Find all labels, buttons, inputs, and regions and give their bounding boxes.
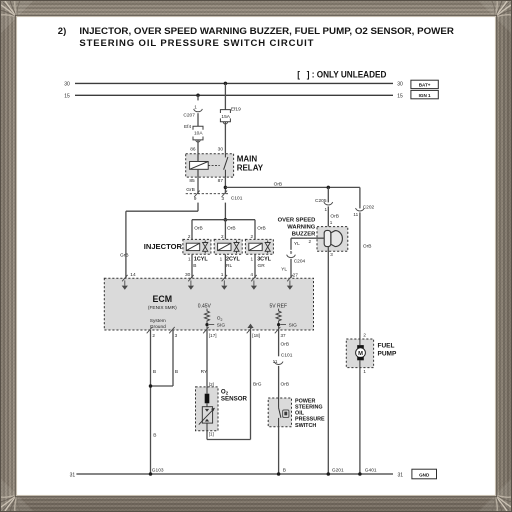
svg-text:OrB: OrB [194, 225, 203, 231]
fuel pump motor [357, 345, 364, 348]
svg-text:GR: GR [258, 263, 266, 269]
wire ign feed upper [197, 95, 199, 100]
wire injector 3 to ECM [254, 254, 256, 278]
svg-text:STEERING OIL PRESSURE SWITCH C: STEERING OIL PRESSURE SWITCH CIRCUIT [79, 38, 313, 49]
wire buzzer to G201 [327, 247, 329, 474]
node G201 [327, 472, 331, 476]
wire YL to ECM 27 [290, 259, 292, 278]
main relay box [186, 154, 234, 177]
node G103 [149, 472, 153, 476]
over speed warning buzzer box [317, 227, 348, 252]
svg-text:OrB: OrB [281, 342, 290, 348]
wire fuel pump to G401 [359, 368, 361, 474]
svg-text:[18]: [18] [252, 333, 260, 338]
relay actuation dashed link [208, 164, 220, 166]
svg-text:[1]: [1] [209, 432, 214, 437]
svg-text:Ef19: Ef19 [231, 107, 241, 113]
connector line C101 [186, 193, 230, 195]
svg-text:C207: C207 [183, 112, 195, 118]
node O2 sig [205, 323, 208, 326]
svg-text:(FENIX 5MR): (FENIX 5MR) [148, 305, 177, 311]
wire OrB C205 to buzzer [327, 206, 329, 230]
svg-text:WARNING: WARNING [287, 224, 316, 230]
relay coil wires [197, 154, 199, 162]
connector C101 pin 11 [274, 362, 283, 365]
wire BrG return loop [206, 431, 208, 440]
svg-text:2: 2 [308, 239, 311, 244]
svg-text:OrB: OrB [281, 382, 290, 388]
bus 15 (ignition feed) [75, 94, 393, 96]
svg-text:OrB: OrB [227, 225, 236, 231]
svg-text:B: B [153, 432, 156, 438]
svg-text:ECM: ECM [153, 294, 173, 304]
injector drop wires [191, 220, 193, 240]
svg-text:SIG: SIG [289, 322, 298, 328]
svg-text:[17]: [17] [209, 333, 217, 338]
svg-text:15: 15 [64, 94, 70, 100]
svg-text:31: 31 [70, 472, 76, 478]
svg-text:B: B [153, 369, 156, 375]
wire OrB to injector bus [224, 203, 226, 220]
svg-text:PRESSURE: PRESSURE [295, 417, 325, 423]
svg-text:1: 1 [250, 257, 253, 262]
wire injector 1 to ECM [191, 254, 193, 278]
svg-text:15: 15 [397, 93, 403, 99]
wire OrB C202 to fuel pump [359, 212, 361, 339]
svg-text:C101: C101 [281, 352, 293, 358]
relay coil [190, 162, 209, 170]
O2 sensor element [205, 394, 210, 404]
svg-text:GrB: GrB [186, 187, 195, 193]
BAT terminal box [411, 80, 438, 88]
injector 3CYL [245, 239, 273, 254]
svg-text:RL: RL [226, 263, 232, 269]
svg-text:1: 1 [221, 272, 224, 278]
svg-text:OrB: OrB [330, 214, 339, 220]
fuel pump wires inside [359, 339, 361, 345]
svg-text:2CYL: 2CYL [226, 257, 240, 263]
svg-text:C205: C205 [315, 198, 327, 204]
O2 sensor box [196, 387, 219, 431]
svg-text:15A: 15A [221, 114, 230, 120]
bus 30 (battery feed) [75, 82, 393, 84]
svg-text:YL: YL [281, 267, 287, 273]
svg-text:IGN 1: IGN 1 [419, 93, 431, 98]
wire fuse Ef19 to relay pin 30 [224, 122, 226, 154]
svg-text:3: 3 [175, 333, 178, 338]
svg-text:2: 2 [251, 234, 254, 239]
svg-text:YL: YL [294, 241, 300, 247]
wire OrB relay 87 down [224, 177, 226, 194]
ECM boundary ticks bottom [147, 327, 153, 333]
svg-text:1: 1 [363, 369, 366, 374]
svg-text:RY: RY [201, 369, 208, 375]
injector 2CYL [214, 239, 242, 254]
svg-text:M: M [358, 351, 363, 357]
wire RY ECM 17 to O2 sensor [206, 330, 208, 387]
node G401 [358, 472, 362, 476]
svg-text:3CYL: 3CYL [257, 257, 271, 263]
svg-text:OrB: OrB [363, 244, 372, 250]
svg-text:2: 2 [221, 234, 224, 239]
node OrB to C205 [327, 186, 331, 190]
connector C207 [194, 109, 203, 112]
node relay 87 / OrB feed [224, 186, 228, 190]
svg-text:1CYL: 1CYL [194, 257, 208, 263]
svg-text:C101: C101 [231, 195, 243, 201]
svg-text:GrB: GrB [120, 252, 129, 258]
svg-text:INJECTOR, OVER SPEED WARNING B: INJECTOR, OVER SPEED WARNING BUZZER, FUE… [79, 26, 454, 37]
injector 1CYL [183, 239, 211, 254]
node ground join [149, 384, 153, 388]
svg-text:SWITCH: SWITCH [295, 423, 316, 429]
connector C204 [287, 255, 296, 258]
svg-text:STEERING: STEERING [295, 405, 323, 411]
svg-text:85: 85 [189, 178, 195, 184]
svg-text:OIL: OIL [295, 411, 305, 417]
svg-text:4: 4 [250, 272, 253, 278]
svg-text:1: 1 [194, 105, 197, 110]
svg-text:14: 14 [130, 272, 136, 278]
svg-text:BrG: BrG [253, 382, 262, 388]
svg-text:SIG: SIG [217, 322, 226, 328]
relay contact [224, 154, 226, 158]
svg-text:11: 11 [353, 212, 358, 217]
wire GrB bend to ECM 14 [197, 203, 199, 212]
svg-text:1: 1 [324, 207, 327, 212]
svg-text:G103: G103 [152, 467, 164, 473]
svg-text:5V REF: 5V REF [270, 303, 288, 309]
svg-text:0.45V: 0.45V [198, 303, 212, 309]
svg-text:MAIN: MAIN [237, 155, 258, 164]
node on bus 15 [196, 94, 200, 98]
svg-text:OVER SPEED: OVER SPEED [278, 217, 316, 223]
svg-text:BAT+: BAT+ [419, 83, 431, 88]
svg-text:9: 9 [290, 250, 293, 255]
svg-text:Ground: Ground [150, 324, 166, 330]
svg-text:OrB: OrB [274, 181, 283, 187]
svg-text:G401: G401 [365, 468, 377, 474]
wire B from ECM 2 [150, 330, 152, 474]
power steering oil pressure switch box [268, 398, 291, 427]
fuel pump box [346, 339, 373, 368]
node on bus 30 [224, 82, 228, 86]
svg-text:INJECTOR: INJECTOR [144, 242, 183, 251]
switch contact [278, 398, 280, 408]
svg-text:O2: O2 [221, 389, 229, 396]
wire fuse Ef4 to relay pin 86 [197, 140, 199, 154]
bus 31 (ground) [76, 473, 393, 475]
svg-text:[ ] : ONLY UNLEADED: [ ] : ONLY UNLEADED [297, 69, 387, 79]
svg-text:BUZZER: BUZZER [292, 231, 316, 237]
fuse Ef4 10A [193, 126, 203, 129]
svg-text:87: 87 [218, 178, 224, 184]
wire GrB relay 85 down [197, 177, 199, 194]
IGN 1 terminal box [411, 90, 438, 98]
svg-text:B: B [283, 467, 286, 473]
wire C207 to fuse Ef4 [197, 113, 199, 126]
wire OrB turn down to C202 [359, 187, 361, 208]
svg-text:86: 86 [190, 147, 196, 153]
wire bat feed [224, 83, 226, 109]
wire YL buzzer pin2 [291, 237, 324, 239]
fuse Ef19 15A [220, 110, 230, 113]
svg-text:1: 1 [330, 220, 333, 225]
svg-text:37: 37 [281, 333, 287, 338]
ECM boundary ticks top [122, 275, 128, 281]
svg-text:27: 27 [293, 273, 299, 279]
wire injector 2 to ECM [224, 254, 226, 278]
svg-text:2: 2 [188, 234, 191, 239]
svg-text:B: B [175, 369, 178, 375]
svg-text:B: B [193, 263, 196, 269]
svg-text:30: 30 [218, 147, 224, 153]
ECM input arrows top [124, 280, 126, 285]
svg-text:GND: GND [419, 472, 430, 477]
svg-text:30: 30 [64, 82, 70, 88]
wire OrB ECM 37 down [278, 330, 280, 356]
GND terminal box [412, 469, 437, 479]
svg-text:30: 30 [185, 272, 191, 278]
svg-text:C202: C202 [363, 205, 375, 211]
svg-text:G201: G201 [332, 468, 344, 474]
wire OrB to switch [278, 366, 280, 398]
svg-text:30: 30 [397, 82, 403, 88]
buzzer symbol [331, 231, 343, 247]
wire B from ECM 3 [172, 330, 174, 386]
svg-text:2): 2) [58, 26, 66, 37]
svg-text:1: 1 [188, 257, 191, 262]
node ground B [277, 472, 281, 476]
svg-text:3: 3 [330, 252, 333, 257]
svg-text:1: 1 [220, 257, 223, 262]
injector bus wire [192, 219, 255, 221]
wire down to C205 [327, 187, 329, 202]
svg-text:OrB: OrB [257, 225, 266, 231]
node 5V sig [277, 323, 280, 326]
wire B switch to ground [278, 427, 280, 474]
svg-text:2: 2 [363, 333, 366, 338]
svg-text:10A: 10A [194, 130, 203, 136]
svg-text:PUMP: PUMP [378, 350, 397, 357]
wire OrB horizontal feed [225, 186, 360, 188]
ECM box [104, 278, 313, 330]
svg-text:2: 2 [152, 333, 155, 338]
svg-text:System: System [150, 318, 166, 324]
svg-text:Ef4: Ef4 [184, 124, 192, 130]
svg-text:RELAY: RELAY [237, 164, 264, 173]
svg-text:SENSOR: SENSOR [221, 396, 248, 403]
O2 sensor internal wires [206, 387, 208, 394]
svg-text:31: 31 [398, 472, 404, 478]
ECM pin 18 input arrow [250, 326, 252, 330]
node injector bus [224, 218, 228, 222]
svg-text:FUEL: FUEL [378, 343, 395, 350]
svg-text:POWER: POWER [295, 398, 315, 404]
svg-text:C204: C204 [294, 259, 306, 265]
